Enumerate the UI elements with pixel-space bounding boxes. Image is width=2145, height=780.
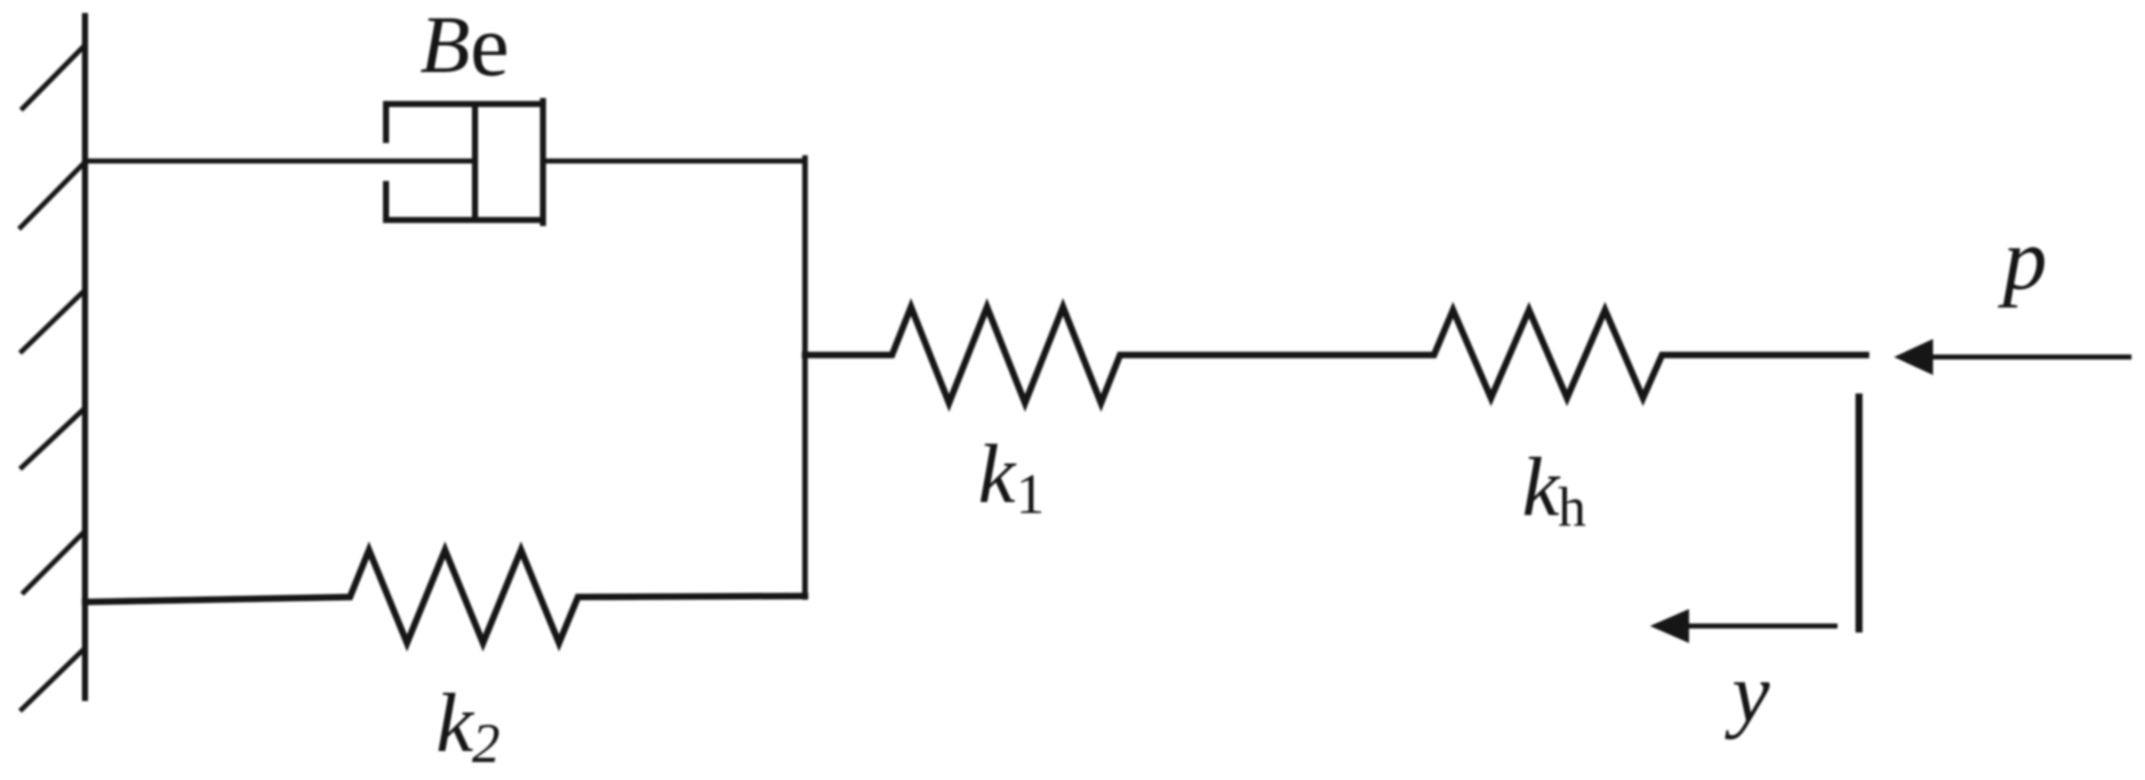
svg-text:k: k	[1522, 441, 1561, 534]
svg-text:p: p	[1997, 212, 2047, 309]
svg-text:2: 2	[472, 713, 500, 775]
svg-text:k: k	[436, 677, 475, 770]
svg-text:Be: Be	[420, 0, 509, 95]
svg-text:1: 1	[1016, 463, 1045, 526]
svg-text:h: h	[1558, 477, 1586, 539]
svg-text:y: y	[1724, 646, 1770, 740]
svg-text:k: k	[978, 428, 1017, 521]
